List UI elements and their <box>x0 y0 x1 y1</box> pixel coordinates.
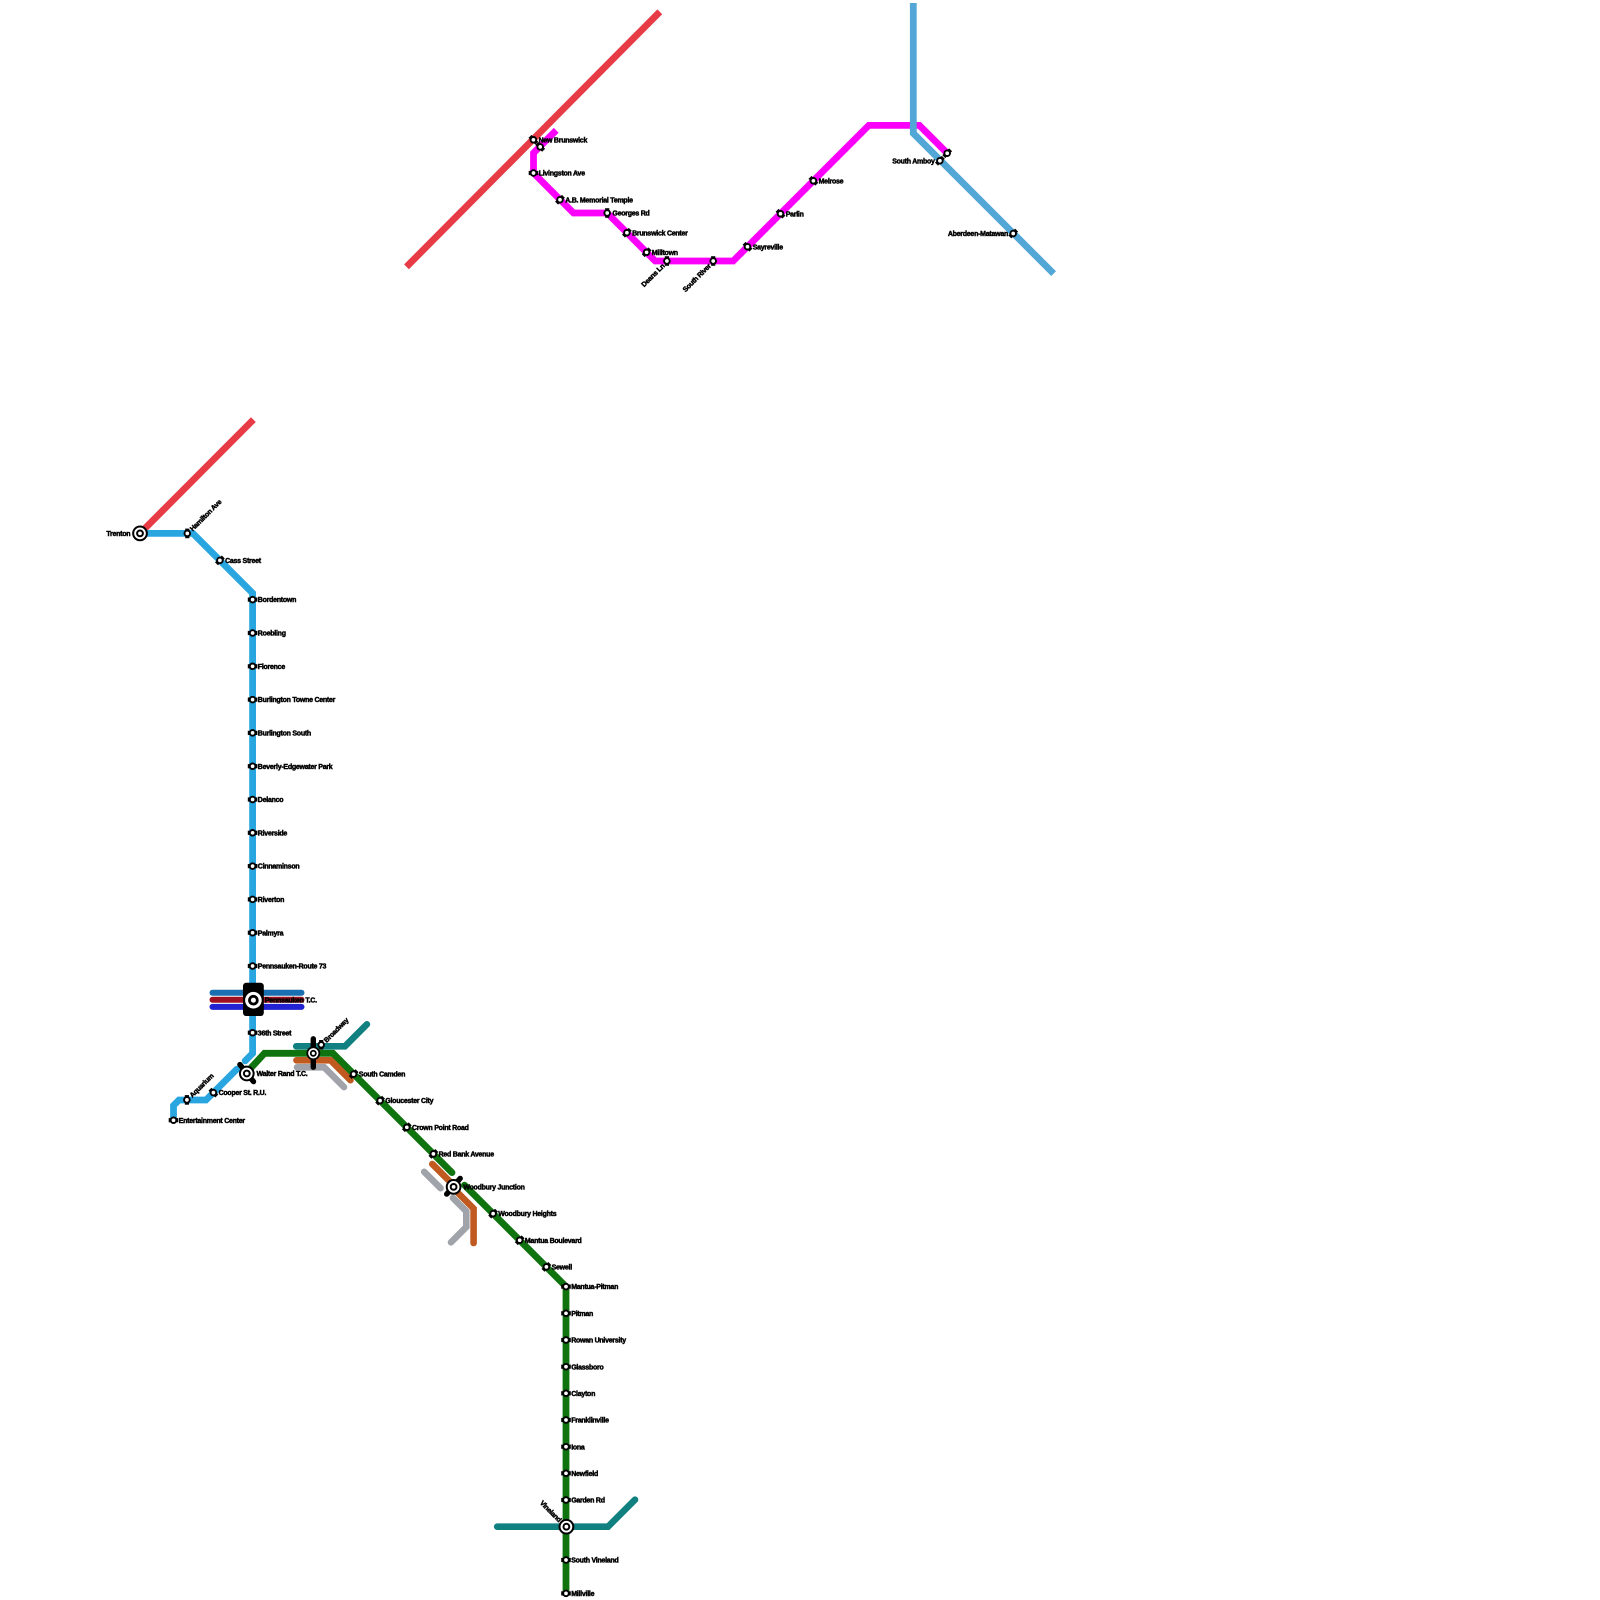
station New Brunswick (NEC) <box>530 136 537 143</box>
station Iona <box>561 1444 571 1450</box>
station Riverton <box>248 897 258 903</box>
svg-text:Pitman: Pitman <box>571 1311 593 1318</box>
station Riverside <box>248 830 258 836</box>
station Sayreville <box>744 243 751 250</box>
wire teal Vineland branch <box>497 1500 635 1527</box>
station South Vineland <box>561 1557 571 1563</box>
station Newfield <box>561 1471 571 1477</box>
svg-text:Walter Rand T.C.: Walter Rand T.C. <box>257 1071 308 1078</box>
label Mantua Boulevard <box>525 1238 582 1245</box>
line North Jersey Coast (blue, top) <box>913 3 1053 274</box>
label Trenton <box>106 531 130 538</box>
svg-text:Georges Rd: Georges Rd <box>612 211 649 218</box>
label Burlington Towne Center <box>258 697 336 704</box>
label Rowan University <box>571 1338 626 1345</box>
station Rowan University <box>561 1337 571 1343</box>
svg-text:Mantua Boulevard: Mantua Boulevard <box>525 1238 582 1245</box>
label Milltown <box>652 250 678 257</box>
station Brunswick Center <box>624 229 631 236</box>
label Brunswick Center <box>632 230 688 237</box>
svg-text:South Amboy: South Amboy <box>892 158 935 165</box>
station Florence <box>248 664 258 670</box>
svg-text:Newfield: Newfield <box>571 1471 598 1478</box>
svg-text:Iona: Iona <box>571 1444 585 1451</box>
svg-text:Brunswick Center: Brunswick Center <box>632 230 688 237</box>
svg-text:Rowan University: Rowan University <box>571 1338 626 1345</box>
svg-text:Cass Street: Cass Street <box>225 558 262 565</box>
line Raritan Valley (magenta) <box>534 125 948 261</box>
label Palmyra <box>258 930 284 937</box>
svg-text:Red Bank Avenue: Red Bank Avenue <box>439 1151 495 1158</box>
interchange Camden hub <box>307 1047 319 1059</box>
station Pitman <box>561 1311 571 1317</box>
label New Brunswick <box>539 137 588 144</box>
station Sewell <box>543 1264 550 1271</box>
label Woodbury Junction <box>463 1184 524 1191</box>
station Beverly-Edgewater Park <box>248 763 258 769</box>
svg-text:Beverly-Edgewater Park: Beverly-Edgewater Park <box>258 764 333 771</box>
label Aquarium <box>189 1073 216 1100</box>
label Burlington South <box>258 730 311 737</box>
wire transfer connector at Woodbury Junction <box>447 1178 461 1194</box>
label Crown Point Road <box>412 1125 469 1132</box>
svg-text:Mantua-Pitman: Mantua-Pitman <box>571 1284 618 1291</box>
label Parlin <box>786 211 804 218</box>
station Crown Point Road <box>403 1124 410 1131</box>
svg-text:Burlington Towne Center: Burlington Towne Center <box>258 697 336 704</box>
station Hamilton Ave <box>185 529 191 539</box>
label Sewell <box>552 1264 573 1271</box>
station Melrose <box>810 177 817 184</box>
label Broadway <box>323 1017 350 1044</box>
station South Amboy <box>937 157 944 164</box>
svg-text:Aberdeen-Matawan: Aberdeen-Matawan <box>948 231 1008 238</box>
wire orange segment south of Woodbury Junction <box>457 1192 474 1243</box>
station Broadway (teal, Camden hub) <box>318 1040 324 1050</box>
station Burlington South <box>248 730 258 736</box>
label Millville <box>571 1591 594 1598</box>
svg-text:Riverton: Riverton <box>258 897 284 904</box>
wire Glassboro-Camden Line north segment <box>251 1053 452 1172</box>
station Cass Street <box>217 557 224 564</box>
label Glassboro <box>571 1364 603 1371</box>
station Deans Ln <box>664 256 670 266</box>
station Mantua Boulevard <box>516 1237 523 1244</box>
label Aberdeen-Matawan <box>948 231 1008 238</box>
label South Camden <box>359 1072 405 1079</box>
svg-text:Garden Rd: Garden Rd <box>571 1498 605 1505</box>
label Pitman <box>571 1311 593 1318</box>
wire transfer connector at Walter Rand <box>240 1065 254 1082</box>
label Walter Rand T.C. <box>257 1071 308 1078</box>
wire River Line north segment <box>140 533 253 1060</box>
station Bordentown <box>248 597 258 603</box>
interchange Woodbury Junction <box>447 1180 461 1194</box>
label A.B. Memorial Temple <box>565 197 633 204</box>
label South Amboy <box>892 158 935 165</box>
label Melrose <box>819 178 844 185</box>
station Mantua-Pitman <box>561 1284 571 1290</box>
label Iona <box>571 1444 585 1451</box>
label Woodbury Heights <box>498 1211 556 1218</box>
svg-text:Milltown: Milltown <box>652 250 678 257</box>
label Riverton <box>258 897 284 904</box>
wire orange segment north of Woodbury Junction <box>432 1164 450 1182</box>
station Woodbury Heights <box>490 1210 497 1217</box>
svg-text:Palmyra: Palmyra <box>258 930 284 937</box>
label Florence <box>258 664 286 671</box>
interchange Walter Rand T.C. <box>240 1067 254 1081</box>
line Northeast Corridor (red, top) <box>407 12 660 267</box>
svg-text:Sayreville: Sayreville <box>753 244 784 251</box>
station 36th Street <box>248 1030 258 1036</box>
label Franklinville <box>571 1418 609 1425</box>
svg-text:South Camden: South Camden <box>359 1072 405 1079</box>
svg-text:Burlington South: Burlington South <box>258 730 311 737</box>
station Georges Rd <box>604 208 610 218</box>
station magenta terminus near South Amboy <box>944 150 951 157</box>
station Cinnaminson <box>248 863 258 869</box>
station Livingston Ave <box>529 170 539 176</box>
svg-text:Franklinville: Franklinville <box>571 1418 609 1425</box>
svg-text:South Vineland: South Vineland <box>571 1558 618 1565</box>
station Franklinville <box>561 1417 571 1423</box>
label Beverly-Edgewater Park <box>258 764 333 771</box>
svg-text:Cinnaminson: Cinnaminson <box>258 864 300 871</box>
label Garden Rd <box>571 1498 605 1505</box>
label Roebling <box>258 631 286 638</box>
label Hamilton Ave <box>189 499 223 533</box>
station A.B. Memorial Temple <box>557 196 564 203</box>
svg-text:Florence: Florence <box>258 664 286 671</box>
svg-text:Glassboro: Glassboro <box>571 1364 603 1371</box>
interchange Vineland junction <box>560 1520 574 1534</box>
svg-text:Woodbury Heights: Woodbury Heights <box>498 1211 556 1218</box>
station Cooper St. R.U. <box>210 1089 217 1096</box>
label 36th Street <box>258 1030 292 1037</box>
label Cooper St. R.U. <box>219 1090 267 1097</box>
svg-text:Roebling: Roebling <box>258 631 286 638</box>
svg-text:Millville: Millville <box>571 1591 594 1598</box>
label South River <box>682 263 713 294</box>
label Newfield <box>571 1471 598 1478</box>
wire transfer connector at Camden hub <box>311 1039 316 1067</box>
svg-text:New Brunswick: New Brunswick <box>539 137 588 144</box>
interchange Pennsauken T.C. <box>243 983 264 1016</box>
wire orange segment at Camden hub <box>296 1060 350 1080</box>
svg-text:Sewell: Sewell <box>552 1264 573 1271</box>
label Cinnaminson <box>258 864 300 871</box>
station Entertainment Center <box>169 1117 179 1123</box>
station Milltown <box>643 249 650 256</box>
svg-text:Riverside: Riverside <box>258 830 288 837</box>
svg-text:Delanco: Delanco <box>258 797 283 804</box>
interchange Trenton <box>133 527 147 541</box>
station Aberdeen-Matawan <box>1010 230 1017 237</box>
label Gloucester City <box>385 1098 433 1105</box>
wire gray segment at Camden hub <box>297 1067 344 1087</box>
station Roebling <box>248 630 258 636</box>
wire teal branch at Camden hub <box>296 1024 367 1046</box>
station Millville <box>561 1591 571 1597</box>
label Livingston Ave <box>539 171 586 178</box>
label Pennsauken T.C. <box>265 997 317 1004</box>
label Pennsauken-Route 73 <box>258 964 327 971</box>
station Burlington Towne Center <box>248 697 258 703</box>
label Clayton <box>571 1391 595 1398</box>
label Cass Street <box>225 558 262 565</box>
svg-text:Pennsauken-Route 73: Pennsauken-Route 73 <box>258 964 327 971</box>
svg-text:Pennsauken T.C.: Pennsauken T.C. <box>265 997 317 1004</box>
svg-text:Bordentown: Bordentown <box>258 597 296 604</box>
svg-text:Gloucester City: Gloucester City <box>385 1098 433 1105</box>
label Sayreville <box>753 244 784 251</box>
station Pennsauken-Route 73 <box>248 963 258 969</box>
line Northeast Corridor (red, Trenton) <box>140 420 253 534</box>
label Entertainment Center <box>179 1118 246 1125</box>
station Gloucester City <box>377 1097 384 1104</box>
station Delanco <box>248 797 258 803</box>
wire Glassboro-Camden Line south segment <box>465 1185 567 1593</box>
svg-text:36th Street: 36th Street <box>258 1030 292 1037</box>
svg-text:Crown Point Road: Crown Point Road <box>412 1125 469 1132</box>
station Garden Rd <box>561 1497 571 1503</box>
svg-text:Trenton: Trenton <box>106 531 130 538</box>
station South River <box>710 256 716 266</box>
label South Vineland <box>571 1558 618 1565</box>
station Glassboro <box>561 1364 571 1370</box>
station South Camden <box>350 1071 357 1078</box>
wire gray segment south of Woodbury Junction <box>451 1198 466 1242</box>
wire NJT bar (indigo) <box>213 1004 302 1010</box>
svg-text:Melrose: Melrose <box>819 178 844 185</box>
wire Amtrak bar (maroon) <box>213 997 302 1003</box>
station Aquarium <box>184 1095 190 1105</box>
svg-text:Cooper St. R.U.: Cooper St. R.U. <box>219 1090 267 1097</box>
svg-text:Parlin: Parlin <box>786 211 804 218</box>
label Deans Ln <box>641 263 667 289</box>
svg-text:Livingston Ave: Livingston Ave <box>539 171 586 178</box>
label Riverside <box>258 830 288 837</box>
label Mantua-Pitman <box>571 1284 618 1291</box>
station Red Bank Avenue <box>430 1151 437 1158</box>
wire gray segment north of Woodbury Junction <box>424 1172 440 1188</box>
svg-text:Woodbury Junction: Woodbury Junction <box>463 1184 524 1191</box>
station Clayton <box>561 1391 571 1397</box>
wire Atlantic City Line bar (steel blue) <box>213 990 302 996</box>
svg-text:Clayton: Clayton <box>571 1391 595 1398</box>
wire River Line south segment <box>174 1069 237 1120</box>
label Vineland <box>538 1500 562 1524</box>
label Red Bank Avenue <box>439 1151 495 1158</box>
station Parlin <box>777 210 784 217</box>
station Palmyra <box>248 930 258 936</box>
label Georges Rd <box>612 211 649 218</box>
station New Brunswick (magenta) <box>537 144 544 151</box>
label Delanco <box>258 797 283 804</box>
label Bordentown <box>258 597 296 604</box>
svg-text:Entertainment Center: Entertainment Center <box>179 1118 246 1125</box>
svg-text:A.B. Memorial Temple: A.B. Memorial Temple <box>565 197 633 204</box>
